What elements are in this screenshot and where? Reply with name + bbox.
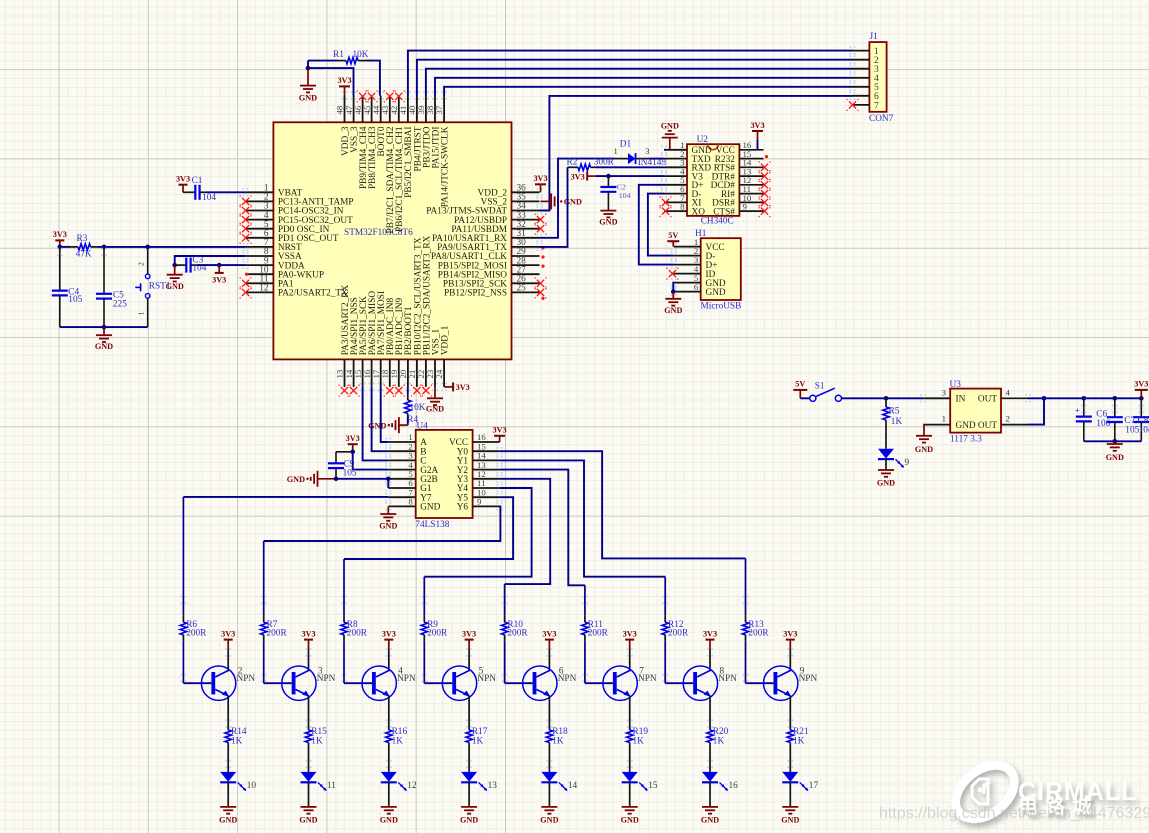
svg-text:105: 105 (343, 468, 357, 478)
svg-text:J1: J1 (870, 32, 879, 42)
svg-text:3V3: 3V3 (382, 629, 396, 638)
svg-text:1K: 1K (392, 737, 404, 747)
svg-text:2: 2 (1006, 414, 1010, 424)
resistor R8 200R (343, 559, 345, 615)
svg-text:NPN: NPN (477, 674, 496, 684)
svg-text:C1: C1 (192, 176, 203, 186)
svg-text:R1: R1 (333, 50, 344, 60)
wire U2 D+ pin5 to H1 D+ (639, 185, 674, 265)
no-ERC marks pins 33 32 (537, 216, 544, 223)
wire PA9 pin30 up to R2 (540, 167, 568, 247)
svg-text:NPN: NPN (397, 674, 416, 684)
U4 pin 12 Y3 (473, 478, 500, 480)
MCU pin 6 PD1 OSC_OUT (246, 237, 274, 239)
svg-text:CTS#: CTS# (713, 207, 735, 217)
MCU pin 2 PC13-ANTI_TAMP (246, 200, 274, 202)
U4 pin 15 Y0 (473, 450, 500, 452)
LED D13 (461, 772, 477, 782)
wire LED to ground (468, 782, 470, 807)
U4 pin 8 GND (388, 505, 415, 507)
wire LED D9 to ground (885, 459, 887, 470)
wire S1 to U3 IN (842, 397, 924, 399)
transistor Q9 NPN (764, 666, 798, 700)
svg-text:GND: GND (781, 816, 799, 825)
wire U4 Y7 to R6 column (183, 496, 388, 498)
node junction at 3V3/R3/C4 (58, 245, 63, 250)
no-ERC mark J1 pin7 (849, 101, 856, 108)
LED D11 (301, 772, 317, 782)
resistor R7 200R (263, 541, 265, 615)
svg-text:24: 24 (434, 369, 444, 378)
wire PA13 SWDAT pin34 to J1-6 (540, 96, 853, 211)
svg-text:R5: R5 (889, 407, 900, 417)
MCU pin 41 PB5/I2C1_SMBAI (407, 96, 409, 123)
wire V3 to U2 pin4 (596, 175, 664, 177)
wire C3 to VDDA pin9 (198, 264, 246, 266)
svg-text:+: + (1075, 405, 1080, 415)
wire LED to ground (548, 782, 550, 807)
svg-text:200R: 200R (427, 628, 448, 638)
wire emitter to R17 (468, 696, 470, 722)
J1 pin 6 (853, 95, 870, 97)
wire R16 to LED D12 (388, 750, 390, 772)
wire bottom rail C6-C7-C8 (1084, 440, 1142, 442)
H1 pin 2 D- (674, 255, 701, 257)
svg-text:NPN: NPN (317, 674, 336, 684)
svg-text:16: 16 (729, 781, 739, 791)
ground sideways at VSS_2 pin35 (541, 200, 552, 202)
svg-text:25: 25 (517, 284, 527, 294)
H1 pin 6 GND (674, 291, 701, 293)
wire 3V3 to collector (468, 649, 470, 671)
power 3V3 inverted below VDDA wire (218, 265, 220, 273)
svg-text:3V3: 3V3 (623, 629, 637, 638)
node junction C6 (1082, 396, 1087, 401)
wire U3 OUT pin2 up (1028, 398, 1044, 424)
svg-text:3V3: 3V3 (1134, 380, 1148, 389)
transistor Q5 NPN (442, 666, 476, 700)
node junction C2 (606, 174, 611, 179)
svg-text:12: 12 (407, 781, 417, 791)
svg-text:5V: 5V (668, 231, 678, 240)
ground below R1 junction (307, 68, 309, 86)
MCU pin 15 PA5/SPI1_SCK (362, 359, 364, 387)
wire emitter to R20 (709, 696, 711, 722)
power 3V3 sideways at U2 V3 net (587, 175, 596, 177)
svg-text:GND: GND (426, 405, 444, 414)
svg-text:1K: 1K (793, 737, 805, 747)
resistor R12 200R (664, 577, 666, 616)
wire LED to ground (629, 782, 631, 807)
transistor Q6 NPN (523, 666, 557, 700)
wire 3V3 to collector (709, 649, 711, 671)
wire U4 Y4 to R9 column (424, 488, 531, 577)
wire emitter to R14 (227, 696, 229, 722)
wire 3V3 to collector (308, 649, 310, 671)
U3 pin1 GND (923, 424, 950, 426)
svg-text:GND: GND (877, 479, 895, 488)
MCU pin 32 PA11/USBDM (512, 228, 540, 230)
node junction C7 (1113, 396, 1118, 401)
capacitor C3 104 (175, 264, 187, 266)
node junction C5 (102, 245, 107, 250)
U3 pin4 OUT (1001, 397, 1028, 399)
transistor Q4 NPN (362, 666, 396, 700)
svg-text:IN: IN (956, 395, 966, 405)
U2 pin 13 DTR# (739, 175, 763, 177)
wire U4 Y3 to R10 column (500, 479, 551, 584)
IC U4 74LS138 body (416, 430, 473, 518)
resistor R19 1K (629, 722, 631, 730)
wire R5 to LED D9 (885, 427, 887, 449)
wire PB4 pin41 to J1-1 (408, 51, 853, 96)
U2 pin 16 VCC (739, 149, 763, 151)
power 3V3 at VDD_2 pin36 (540, 184, 542, 192)
LED D17 (782, 772, 798, 782)
no-ERC mark H1 pin4 ID (669, 270, 676, 277)
node junction 3V3 VDDA (217, 263, 222, 268)
svg-text:104: 104 (1139, 426, 1149, 436)
svg-text:CH340C: CH340C (701, 216, 734, 226)
MCU pin 45 PB8/TIM4_CH3 (371, 96, 373, 123)
no-ERC marks pins 29-25 (541, 246, 544, 249)
capacitor C9 105 (336, 451, 353, 453)
MCU pin 17 PA7/SPI1_MOSI (380, 359, 382, 387)
U2 pin 15 R232 (739, 158, 763, 160)
svg-text:3V3: 3V3 (571, 172, 585, 181)
wire R20 to LED D16 (709, 750, 711, 772)
capacitor C4 105 (59, 247, 61, 291)
svg-text:1K: 1K (552, 737, 564, 747)
transistor Q7 NPN (603, 666, 637, 700)
svg-text:XO: XO (692, 207, 706, 217)
node junction rail GND (1113, 439, 1118, 444)
svg-text:GND: GND (621, 816, 639, 825)
power 3V3 at U4 G2A node (352, 444, 354, 452)
power 3V3 at Q4 collector (388, 640, 390, 649)
svg-text:U2: U2 (697, 135, 709, 145)
svg-text:CON7: CON7 (869, 114, 894, 124)
diode D1 1N4148 (614, 158, 628, 160)
svg-text:10K: 10K (353, 50, 369, 60)
capacitor C6 106 polarized (1083, 398, 1085, 416)
svg-text:C8: C8 (1138, 416, 1149, 426)
MCU pin 12 PA2/USART2_TX (246, 291, 274, 293)
svg-text:3V3: 3V3 (346, 434, 360, 443)
wire base R10 to Q6 (505, 682, 533, 684)
MCU pin 20 PB2/BOOT1 (407, 359, 409, 387)
U2 pin 14 RTS# (739, 166, 763, 168)
U4 pin 5 G2B (388, 478, 415, 480)
ground below LED D9 (885, 469, 887, 471)
svg-text:200R: 200R (267, 628, 288, 638)
svg-text:NPN: NPN (718, 674, 737, 684)
wire D1 to U2 TXD pin2 (649, 158, 664, 160)
wire LED to ground (789, 782, 791, 807)
MCU pin 19 PB1/ADC_IN9 (398, 359, 400, 387)
power 3V3 at Q7 collector (629, 640, 631, 649)
J1 pin 7 (853, 104, 870, 106)
U4 pin 13 Y2 (473, 469, 500, 471)
regulator U3 1117-3.3 body (950, 389, 1001, 433)
wire R3 to NRST pin7 (98, 246, 246, 248)
ground at U4 GND pin8 (387, 506, 389, 514)
svg-text:3V3: 3V3 (456, 383, 470, 392)
wire base R13 to Q9 (746, 682, 774, 684)
svg-text:10: 10 (247, 781, 257, 791)
MCU pin 1 VBAT (246, 191, 274, 193)
MCU pin 25 PB12/SPI2_NSS (512, 291, 540, 293)
ground below LED D13 (468, 806, 470, 808)
svg-text:GND: GND (664, 306, 682, 315)
wire LED to ground (709, 782, 711, 807)
capacitor C8 104 (1140, 398, 1142, 417)
MCU pin 10 PA0-WKUP (246, 273, 274, 275)
svg-text:3V3: 3V3 (750, 121, 764, 130)
svg-text:3V3: 3V3 (542, 629, 556, 638)
MCU pin 48 VDD_3 (344, 96, 346, 123)
wire emitter to R18 (548, 696, 550, 722)
svg-text:2: 2 (137, 262, 146, 266)
node junction C3/GND/VSSA (172, 263, 177, 268)
LED D12 (381, 772, 397, 782)
svg-text:47K: 47K (76, 249, 92, 259)
svg-text:PA2/USART2_TX: PA2/USART2_TX (278, 289, 348, 299)
MCU pin 47 VSS_3 (353, 96, 355, 123)
wire emitter to R19 (629, 696, 631, 722)
MCU pin 13 PA3/USART2_RX (344, 359, 346, 387)
svg-text:7: 7 (874, 100, 879, 111)
wire PA6 pin16 to U4 B (372, 387, 389, 451)
power 3V3 at R3 (59, 240, 61, 247)
MCU pin 7 NRST (246, 246, 274, 248)
resistor R13 200R (745, 558, 747, 615)
U4 pin 11 Y4 (473, 487, 500, 489)
MCU pin 46 PB9/TIM4_CH4 (362, 96, 364, 123)
power 3V3 at C1 (182, 185, 184, 193)
svg-text:3V3: 3V3 (301, 629, 315, 638)
ground at C3 left (174, 265, 176, 275)
svg-text:3V3: 3V3 (783, 629, 797, 638)
MCU U1 STM32F103C8T6 body (273, 122, 511, 359)
MCU pin 37 PA14/JTCK-SWCLK (443, 96, 445, 123)
svg-text:3V3: 3V3 (703, 629, 717, 638)
svg-text:GND: GND (380, 816, 398, 825)
node junction H1 GND (671, 289, 676, 294)
U2 pin 1 GND (664, 149, 687, 151)
svg-text:GND: GND (420, 503, 440, 513)
svg-text:200R: 200R (668, 628, 689, 638)
wire R21 to LED D17 (789, 750, 791, 772)
wire VSSA pin8 down to C3 (175, 256, 246, 265)
wire PA14 pin37 to J1-5 (444, 87, 852, 96)
wire base R6 to Q2 (183, 682, 211, 684)
svg-text:105: 105 (68, 295, 82, 305)
svg-text:GND: GND (915, 445, 933, 454)
svg-text:1K: 1K (633, 737, 645, 747)
U4 pin 10 Y5 (473, 496, 500, 498)
ground at MCU VSS_1 pin23 (434, 387, 436, 398)
power 3V3 at Q8 collector (709, 640, 711, 649)
MCU pin 21 PB10/I2C2_SCL/USART3_TX (416, 359, 418, 387)
power 3V3 at Q6 collector (548, 640, 550, 649)
MCU pin 22 PB11/I2C2_SDA/USART3_RX (425, 359, 427, 387)
ground below H1 (672, 292, 674, 299)
J1 pin 5 (853, 86, 870, 88)
ground below LED D17 (789, 806, 791, 808)
wire R14 to LED D10 (227, 750, 229, 772)
H1 pin 5 GND (674, 282, 701, 284)
wire U4 Y1 to R12 column (500, 460, 666, 576)
power 3V3 sideways at MCU VDD_1 pin24 (444, 386, 453, 388)
svg-text:4: 4 (1006, 387, 1011, 397)
U2 pin 10 DSR# (739, 201, 763, 203)
no-ERC marks U2 pins 7 8 XI XO (662, 199, 669, 206)
ground sideways left of R4 (399, 424, 408, 426)
MCU pin 36 VDD_2 (512, 191, 540, 193)
svg-text:GND: GND (299, 816, 317, 825)
wire 5V to S1 (800, 397, 809, 399)
svg-text:U3: U3 (950, 380, 962, 390)
svg-text:6: 6 (694, 282, 699, 292)
power 5V at switch S1 (799, 390, 801, 398)
ground below LED D12 (388, 806, 390, 808)
svg-text:3V3: 3V3 (53, 230, 67, 239)
LED D9 (878, 449, 894, 459)
U4 pin 16 VCC (473, 441, 500, 443)
svg-text:15: 15 (648, 781, 658, 791)
MCU pin 23 VSS_1 (434, 359, 436, 387)
wire bottom rail C4-C5-RST1 (60, 326, 148, 328)
no-ERC marks pins 2-6 (242, 198, 249, 205)
capacitor C2 104 (607, 176, 609, 187)
svg-text:R3: R3 (77, 234, 88, 244)
resistor R14 1K (227, 722, 229, 730)
MCU pin 29 PA8/USART1_CLK (512, 255, 540, 257)
svg-text:1K: 1K (472, 737, 484, 747)
U4 pin 3 C (388, 459, 415, 461)
svg-text:74LS138: 74LS138 (415, 520, 449, 530)
svg-text:37: 37 (434, 105, 444, 114)
svg-text:3V3: 3V3 (462, 629, 476, 638)
wire LED to ground (308, 782, 310, 807)
power 3V3 right (1140, 390, 1142, 398)
wire PA7 pin17 to U4 A (381, 387, 389, 442)
svg-text:GND: GND (540, 816, 558, 825)
resistor R16 1K (388, 722, 390, 730)
wire PA15 pin39 to J1-3 (426, 69, 853, 96)
wire R18 to LED D14 (548, 750, 550, 772)
wire PA5 pin15 to U4 C (363, 387, 389, 461)
power 3V3 at Q3 collector (308, 640, 310, 649)
wire R17 to LED D13 (468, 750, 470, 772)
MCU pin 39 PB3/JTDO (425, 96, 427, 123)
svg-text:GND: GND (460, 816, 478, 825)
svg-text:C6: C6 (1096, 410, 1107, 420)
resistor R18 1K (548, 722, 550, 730)
svg-text:GND: GND (379, 522, 397, 531)
svg-text:200R: 200R (347, 628, 368, 638)
svg-text:12: 12 (259, 284, 269, 294)
no-ERC marks U2 pins 15-9 (765, 155, 768, 158)
wire R19 to LED D15 (629, 750, 631, 772)
resistor R4 10K (BOOT1 pulldown) (407, 387, 409, 393)
MCU pin 40 PB4/JTRST (416, 96, 418, 123)
U2 pin 3 RXD (664, 166, 687, 168)
svg-text:106: 106 (1096, 419, 1110, 429)
svg-text:5V: 5V (795, 380, 805, 389)
MCU pin 44 BOOT0 (380, 96, 382, 123)
wire junction to VSS_3 pin47 (308, 61, 354, 96)
svg-text:104: 104 (619, 191, 631, 200)
MCU pin 31 PA10/USART1_RX (512, 237, 540, 239)
MCU pin 4 PC15-OSC32_OUT (246, 219, 274, 221)
svg-text:200R: 200R (748, 628, 769, 638)
svg-text:1: 1 (614, 146, 618, 156)
svg-text:NPN: NPN (638, 674, 657, 684)
no-ERC marks MCU bottom pins 13 14 18 19 21 22 (341, 387, 348, 394)
svg-text:1117 3.3: 1117 3.3 (950, 435, 982, 445)
svg-text:NPN: NPN (558, 674, 577, 684)
connector H1 MicroUSB body (701, 238, 741, 300)
U4 pin 1 A (388, 441, 415, 443)
wire base R12 to Q8 (665, 682, 693, 684)
svg-text:GND: GND (706, 288, 726, 298)
wire 3V3 to collector (388, 649, 390, 671)
svg-text:17: 17 (809, 781, 819, 791)
U2 pin 7 XI (664, 201, 687, 203)
LED D14 (541, 772, 557, 782)
U2 pin 5 D+ (664, 184, 687, 186)
ground below C2 (607, 210, 609, 212)
svg-text:OUT: OUT (978, 421, 997, 431)
resistor R20 1K (709, 722, 711, 730)
wire base R11 to Q7 (585, 682, 613, 684)
wire LED to ground (227, 782, 229, 807)
wire 3V3 to collector (629, 649, 631, 671)
svg-text:GND: GND (599, 217, 617, 226)
wire G2B row to U4 pin5 (336, 478, 388, 480)
svg-text:300R: 300R (594, 158, 615, 168)
MCU pin 34 PA13/JTMS-SWDAT (512, 210, 540, 212)
resistor R2 300R (568, 166, 579, 168)
J1 pin 3 (853, 68, 870, 70)
wire base R8 to Q4 (344, 682, 372, 684)
H1 pin 1 VCC (674, 246, 701, 248)
svg-text:GND: GND (956, 421, 976, 431)
transistor Q2 NPN (201, 666, 235, 700)
ground below LED D11 (308, 806, 310, 808)
U2 pin 4 V3 (664, 175, 687, 177)
MCU pin 26 PB13/SPI2_SCK (512, 282, 540, 284)
wire U4 Y0 to R13 column (500, 451, 746, 558)
svg-text:OUT: OUT (978, 395, 997, 405)
wire H1 GND pins 5-6 (672, 283, 674, 292)
ground sideways left of C9 (318, 478, 337, 480)
wire U4 Y6 to R7 column (264, 506, 501, 541)
resistor R1 10K (BOOT0 pulldown) (308, 60, 338, 62)
power 3V3 at Q2 collector (227, 640, 229, 649)
U3 pin3 IN (920, 394, 926, 402)
power 3V3 at Q9 collector (789, 640, 791, 649)
power 3V3 at pin48 VDD_3 (344, 86, 346, 95)
power 3V3 at U4 VCC pin16 (499, 436, 501, 442)
resistor R10 200R (504, 584, 506, 615)
J1 pin 2 (853, 59, 870, 61)
U2 pin 9 CTS# (739, 210, 763, 212)
MCU pin 3 PC14-OSC32_IN (246, 210, 274, 212)
resistor R3 47K (60, 246, 70, 248)
